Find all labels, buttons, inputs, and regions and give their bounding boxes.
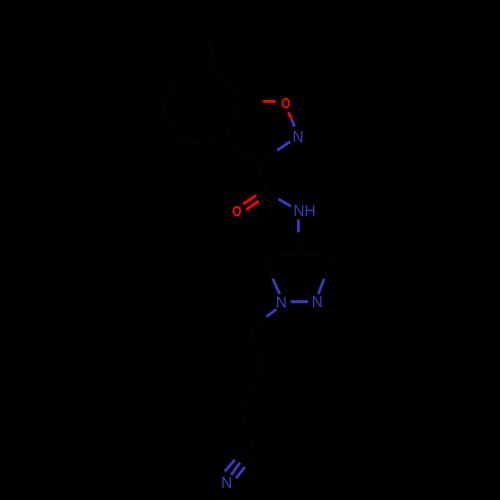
nitrile triple bond: lower-right blue stroke xyxy=(236,467,245,478)
atom labels xyxy=(221,99,323,492)
svg-text:N: N xyxy=(276,295,287,312)
svg-text:N: N xyxy=(292,129,303,146)
pyrazole C bonds xyxy=(297,232,300,254)
nitrile triple bond: middle blue stroke xyxy=(231,463,240,475)
bond N1-N2 xyxy=(291,300,309,303)
svg-text:N: N xyxy=(312,294,323,311)
bond C-N amide blue half xyxy=(279,199,292,206)
ghost substituent stub on benzo ring xyxy=(206,31,215,70)
benzo ring xyxy=(162,70,241,145)
ghost carbon skeleton (near-black) xyxy=(162,31,332,467)
visible colored bonds xyxy=(225,101,324,478)
label O isoxazole xyxy=(282,99,289,107)
svg-text:NH: NH xyxy=(293,203,315,220)
svg-text:N: N xyxy=(221,475,232,492)
bond C=O upper red line xyxy=(243,196,256,204)
bond N2=C3 blue half xyxy=(277,142,290,151)
label O carbonyl xyxy=(233,207,240,215)
bond C=O lower red line xyxy=(246,201,259,210)
bond N2-C3' blue half xyxy=(318,279,324,294)
bond N1-CH2 blue half xyxy=(266,309,276,317)
bond N(H)-C4' blue half xyxy=(297,220,300,233)
nitrile C halves xyxy=(240,446,253,463)
bond O1-N2 blue half xyxy=(291,119,294,127)
nitrile triple bond: upper-left blue stroke xyxy=(225,460,235,472)
chain xyxy=(240,317,266,446)
isoxazole C bonds xyxy=(241,99,263,102)
bond C7a-O1 red half xyxy=(263,100,276,103)
bond O1-N2 red half xyxy=(288,112,291,118)
amide C bonds xyxy=(257,164,266,191)
bond N1-C5' blue half xyxy=(273,279,280,294)
